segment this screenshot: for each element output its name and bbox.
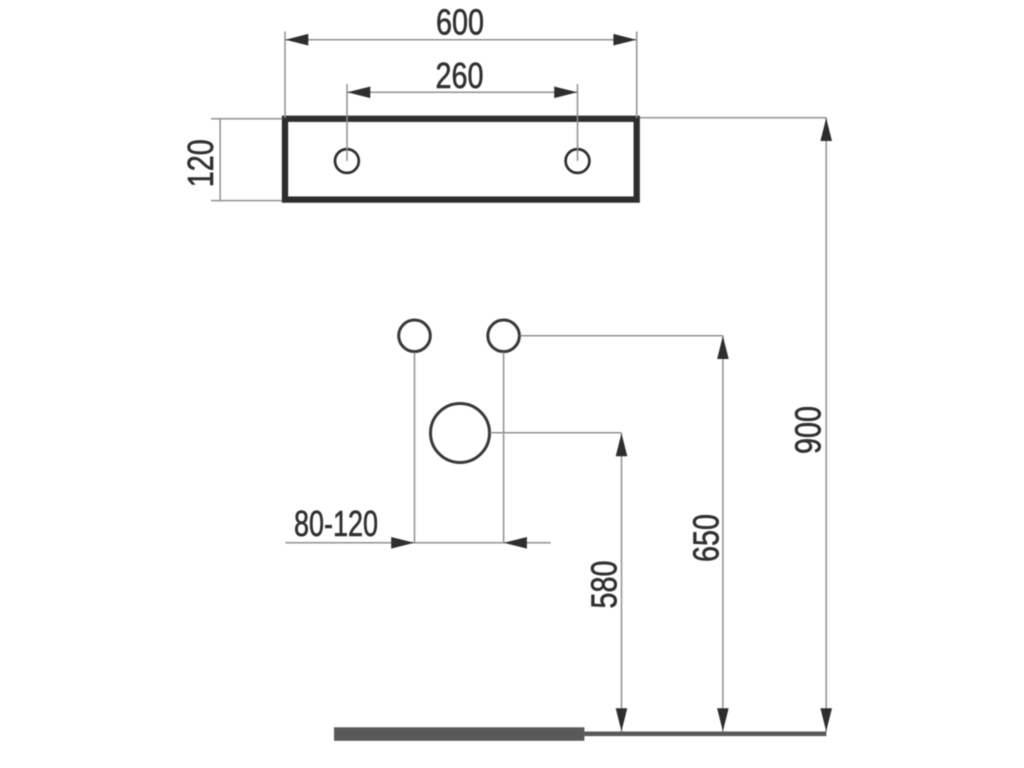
extension line: 120 top	[211, 118, 282, 120]
leader line: left hole down to 80-120 dimension	[414, 352, 416, 543]
arrowhead 600 left	[285, 34, 308, 46]
svg-text:80-120: 80-120	[294, 503, 378, 544]
extension line: 600 right	[636, 32, 638, 119]
arrowhead 900 top	[820, 118, 832, 141]
arrowhead 650 bottom	[717, 708, 729, 731]
leader line: right hole down to 80-120 dimension	[503, 352, 505, 543]
svg-text:600: 600	[436, 2, 484, 43]
dimension line 650 (vertical)	[722, 336, 724, 732]
mounting hole right (in basin)	[566, 149, 590, 173]
extension line: 600 left	[284, 32, 286, 119]
extension line: 260 right (to right hole centre)	[577, 84, 579, 161]
dimension line 900 (vertical)	[825, 118, 827, 732]
arrowhead 580 bottom	[616, 708, 628, 731]
arrowhead 900 bottom	[820, 708, 832, 731]
svg-text:580: 580	[584, 561, 625, 609]
dimension line 120 (vertical, left of basin)	[219, 118, 221, 201]
leader line: right hole to 650 dimension	[520, 335, 723, 337]
dimension line 600	[285, 39, 637, 41]
dimension line 260	[347, 91, 578, 93]
basin outline (front view rectangle)	[285, 119, 637, 200]
arrowhead 600 right	[613, 34, 636, 46]
wall fixing hole left (small circle)	[399, 320, 431, 352]
dimension line 80-120	[286, 542, 551, 544]
svg-text:120: 120	[180, 139, 221, 187]
arrowhead 650 top	[717, 336, 729, 359]
arrowhead 260 left	[347, 87, 370, 99]
wall fixing hole right (small circle)	[488, 320, 520, 352]
arrowhead 260 right	[554, 87, 577, 99]
leader line: basin top edge to 900 dimension	[640, 117, 826, 119]
arrowhead 80-120 pointing right	[391, 537, 414, 549]
svg-text:260: 260	[436, 55, 484, 96]
extension line: 260 left (to left hole centre)	[346, 84, 348, 161]
arrowhead 580 top	[616, 433, 628, 456]
mounting hole left (in basin)	[335, 149, 359, 173]
svg-text:900: 900	[788, 406, 829, 454]
leader line: drain hole to 580 dimension	[490, 432, 621, 434]
extension line: 120 bottom	[211, 200, 282, 202]
floor line thick segment	[334, 727, 584, 741]
floor line thin segment	[584, 732, 826, 737]
dimension line 580 (vertical)	[621, 433, 623, 732]
arrowhead 80-120 pointing left	[504, 537, 527, 549]
drain hole (large circle)	[431, 404, 490, 463]
svg-text:650: 650	[686, 514, 727, 562]
